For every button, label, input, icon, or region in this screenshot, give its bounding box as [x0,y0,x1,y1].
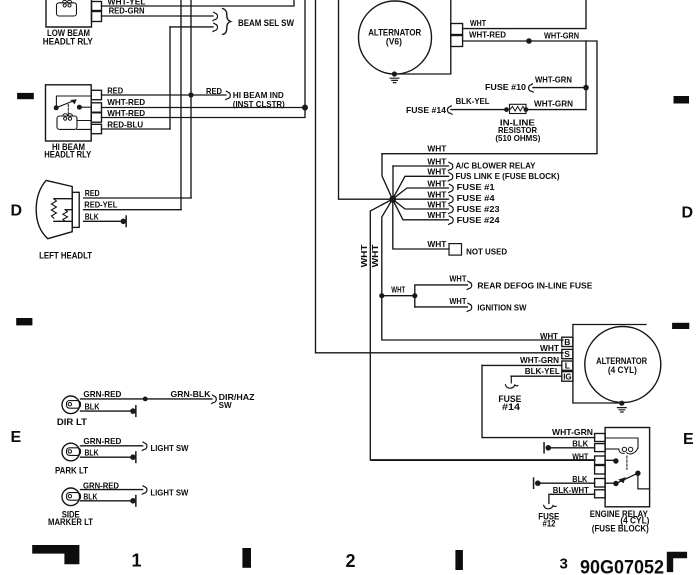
svg-text:WHT: WHT [427,189,447,199]
svg-text:WHT: WHT [391,285,406,295]
svg-text:WHT-GRN: WHT-GRN [520,355,559,365]
svg-text:WHT-GRN: WHT-GRN [552,427,593,437]
svg-text:S: S [564,349,570,359]
svg-text:WHT: WHT [427,210,447,220]
svg-text:IGNITION SW: IGNITION SW [477,303,527,313]
svg-text:RED-YEL: RED-YEL [84,200,117,210]
svg-text:WHT: WHT [470,18,487,28]
svg-text:LEFT HEADLT: LEFT HEADLT [39,251,92,262]
svg-text:(V6): (V6) [386,37,402,48]
svg-text:RED-BLU: RED-BLU [107,119,143,129]
svg-text:BLK: BLK [572,474,588,484]
svg-text:BLK: BLK [572,438,589,448]
svg-text:L: L [565,361,570,371]
svg-text:BEAM SEL SW: BEAM SEL SW [238,18,294,29]
svg-text:WHT: WHT [572,452,589,462]
svg-text:BLK-WHT: BLK-WHT [553,485,590,495]
svg-text:BLK: BLK [85,402,101,412]
svg-text:D: D [11,203,23,220]
svg-text:FUSE #14: FUSE #14 [406,105,446,115]
svg-text:(INST CLSTR): (INST CLSTR) [233,99,285,109]
svg-text:WHT: WHT [449,274,467,284]
svg-text:PARK LT: PARK LT [55,466,88,476]
svg-text:1: 1 [132,551,142,571]
svg-text:RED: RED [85,188,100,198]
svg-text:E: E [683,431,694,448]
svg-text:BLK-YEL: BLK-YEL [456,96,490,106]
svg-text:WHT: WHT [427,239,447,249]
svg-text:B: B [564,337,570,347]
svg-text:SW: SW [219,400,233,410]
svg-text:WHT: WHT [427,167,447,177]
svg-text:WHT: WHT [427,156,447,166]
svg-text:D: D [682,205,694,222]
svg-text:WHT-GRN: WHT-GRN [544,30,579,40]
svg-text:E: E [11,429,22,446]
svg-text:FUSE #1: FUSE #1 [457,182,495,192]
svg-text:FUSE #4: FUSE #4 [457,193,495,203]
svg-text:2: 2 [346,551,356,571]
svg-text:HEADLT RLY: HEADLT RLY [43,37,94,48]
svg-text:WHT-GRN: WHT-GRN [534,99,573,109]
svg-text:WHT: WHT [427,178,447,188]
svg-text:LIGHT SW: LIGHT SW [151,443,190,453]
svg-text:A/C BLOWER RELAY: A/C BLOWER RELAY [456,160,536,170]
svg-text:3: 3 [560,556,568,573]
svg-text:WHT: WHT [359,243,369,267]
svg-text:FUSE #24: FUSE #24 [457,215,500,225]
svg-text:NOT USED: NOT USED [466,247,507,257]
svg-text:HEADLT RLY: HEADLT RLY [44,150,92,161]
svg-text:BLK: BLK [85,212,100,222]
svg-text:WHT: WHT [449,296,467,306]
svg-text:BLK: BLK [85,447,100,457]
svg-text:WHT-GRN: WHT-GRN [535,74,572,84]
svg-text:(510 OHMS): (510 OHMS) [495,133,540,143]
svg-text:WHT: WHT [370,243,380,267]
svg-text:90G07052: 90G07052 [580,558,664,575]
svg-text:REAR DEFOG IN-LINE FUSE: REAR DEFOG IN-LINE FUSE [477,281,592,291]
svg-text:GRN-RED: GRN-RED [83,436,121,446]
svg-text:GRN-RED: GRN-RED [83,480,119,490]
svg-text:BLK: BLK [83,492,98,502]
svg-text:WHT: WHT [540,343,560,353]
svg-text:(4 CYL): (4 CYL) [608,365,637,376]
svg-text:RED-GRN: RED-GRN [109,6,145,16]
svg-text:WHT: WHT [427,144,447,154]
svg-text:RED: RED [107,86,123,96]
svg-text:WHT: WHT [427,199,447,209]
svg-text:BLK-YEL: BLK-YEL [525,366,560,376]
svg-text:DIR LT: DIR LT [57,417,88,427]
svg-text:LIGHT SW: LIGHT SW [150,488,189,498]
svg-text:WHT-RED: WHT-RED [107,97,145,107]
svg-text:WHT-RED: WHT-RED [107,108,145,118]
svg-text:GRN-RED: GRN-RED [83,389,121,399]
svg-text:WHT: WHT [540,331,559,341]
svg-text:IG: IG [563,373,571,382]
svg-text:FUSE #10: FUSE #10 [485,82,526,92]
svg-text:RED: RED [206,86,222,96]
svg-text:MARKER LT: MARKER LT [48,517,93,527]
svg-text:(FUSE BLOCK): (FUSE BLOCK) [592,524,649,534]
svg-text:FUS LINK E (FUSE BLOCK): FUS LINK E (FUSE BLOCK) [456,171,560,181]
svg-text:WHT-RED: WHT-RED [469,29,506,39]
svg-text:FUSE #23: FUSE #23 [457,204,500,214]
svg-text:GRN-BLK: GRN-BLK [171,389,212,399]
svg-text:#14: #14 [502,402,520,412]
svg-text:#12: #12 [543,519,556,529]
